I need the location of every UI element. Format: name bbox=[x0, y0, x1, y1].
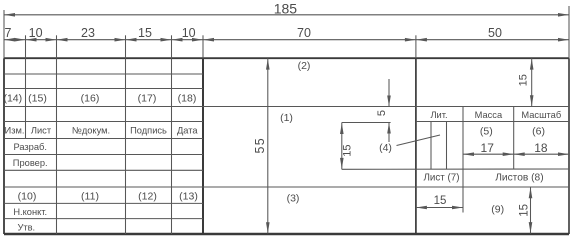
svg-text:10: 10 bbox=[182, 26, 196, 40]
svg-text:(5): (5) bbox=[480, 125, 493, 137]
svg-text:Провер.: Провер. bbox=[13, 158, 48, 168]
svg-text:23: 23 bbox=[81, 26, 95, 40]
svg-text:Лист (7): Лист (7) bbox=[424, 172, 460, 183]
svg-text:(11): (11) bbox=[81, 190, 99, 202]
svg-text:(15): (15) bbox=[28, 93, 47, 105]
svg-text:Подпись: Подпись bbox=[130, 126, 167, 136]
svg-text:(13): (13) bbox=[179, 190, 198, 202]
svg-text:Дата: Дата bbox=[177, 126, 198, 136]
svg-text:Изм.: Изм. bbox=[5, 126, 25, 136]
svg-text:18: 18 bbox=[534, 141, 548, 155]
svg-text:Лист: Лист bbox=[31, 126, 52, 136]
svg-text:Утв.: Утв. bbox=[17, 223, 35, 233]
svg-text:15: 15 bbox=[138, 26, 152, 40]
svg-text:5: 5 bbox=[376, 110, 388, 116]
svg-text:(12): (12) bbox=[138, 190, 157, 202]
svg-text:(17): (17) bbox=[138, 93, 157, 105]
svg-text:70: 70 bbox=[297, 26, 311, 40]
svg-text:15: 15 bbox=[434, 195, 447, 207]
svg-text:(14): (14) bbox=[3, 93, 22, 105]
svg-text:15: 15 bbox=[519, 204, 531, 217]
svg-text:7: 7 bbox=[5, 26, 12, 40]
svg-text:Масштаб: Масштаб bbox=[521, 110, 561, 120]
svg-text:55: 55 bbox=[253, 137, 267, 153]
svg-text:50: 50 bbox=[488, 26, 502, 40]
svg-text:Листов (8): Листов (8) bbox=[495, 172, 543, 183]
svg-text:Разраб.: Разраб. bbox=[13, 142, 46, 152]
svg-text:17: 17 bbox=[481, 141, 495, 155]
svg-text:Н.конкт.: Н.конкт. bbox=[13, 207, 47, 217]
svg-text:Лит.: Лит. bbox=[430, 110, 447, 120]
svg-text:185: 185 bbox=[274, 0, 298, 16]
svg-text:(9): (9) bbox=[491, 203, 504, 215]
svg-text:(3): (3) bbox=[287, 193, 300, 205]
svg-text:№докум.: №докум. bbox=[72, 126, 110, 136]
svg-text:(16): (16) bbox=[81, 93, 100, 105]
svg-text:(18): (18) bbox=[178, 93, 197, 105]
svg-text:(10): (10) bbox=[18, 190, 37, 202]
svg-text:(2): (2) bbox=[298, 60, 311, 72]
svg-text:(4): (4) bbox=[379, 142, 392, 154]
svg-text:(1): (1) bbox=[280, 112, 293, 124]
svg-text:(6): (6) bbox=[532, 125, 545, 137]
svg-text:15: 15 bbox=[518, 74, 530, 86]
svg-text:Масса: Масса bbox=[475, 110, 503, 120]
svg-text:10: 10 bbox=[29, 26, 43, 40]
svg-text:15: 15 bbox=[342, 144, 354, 156]
